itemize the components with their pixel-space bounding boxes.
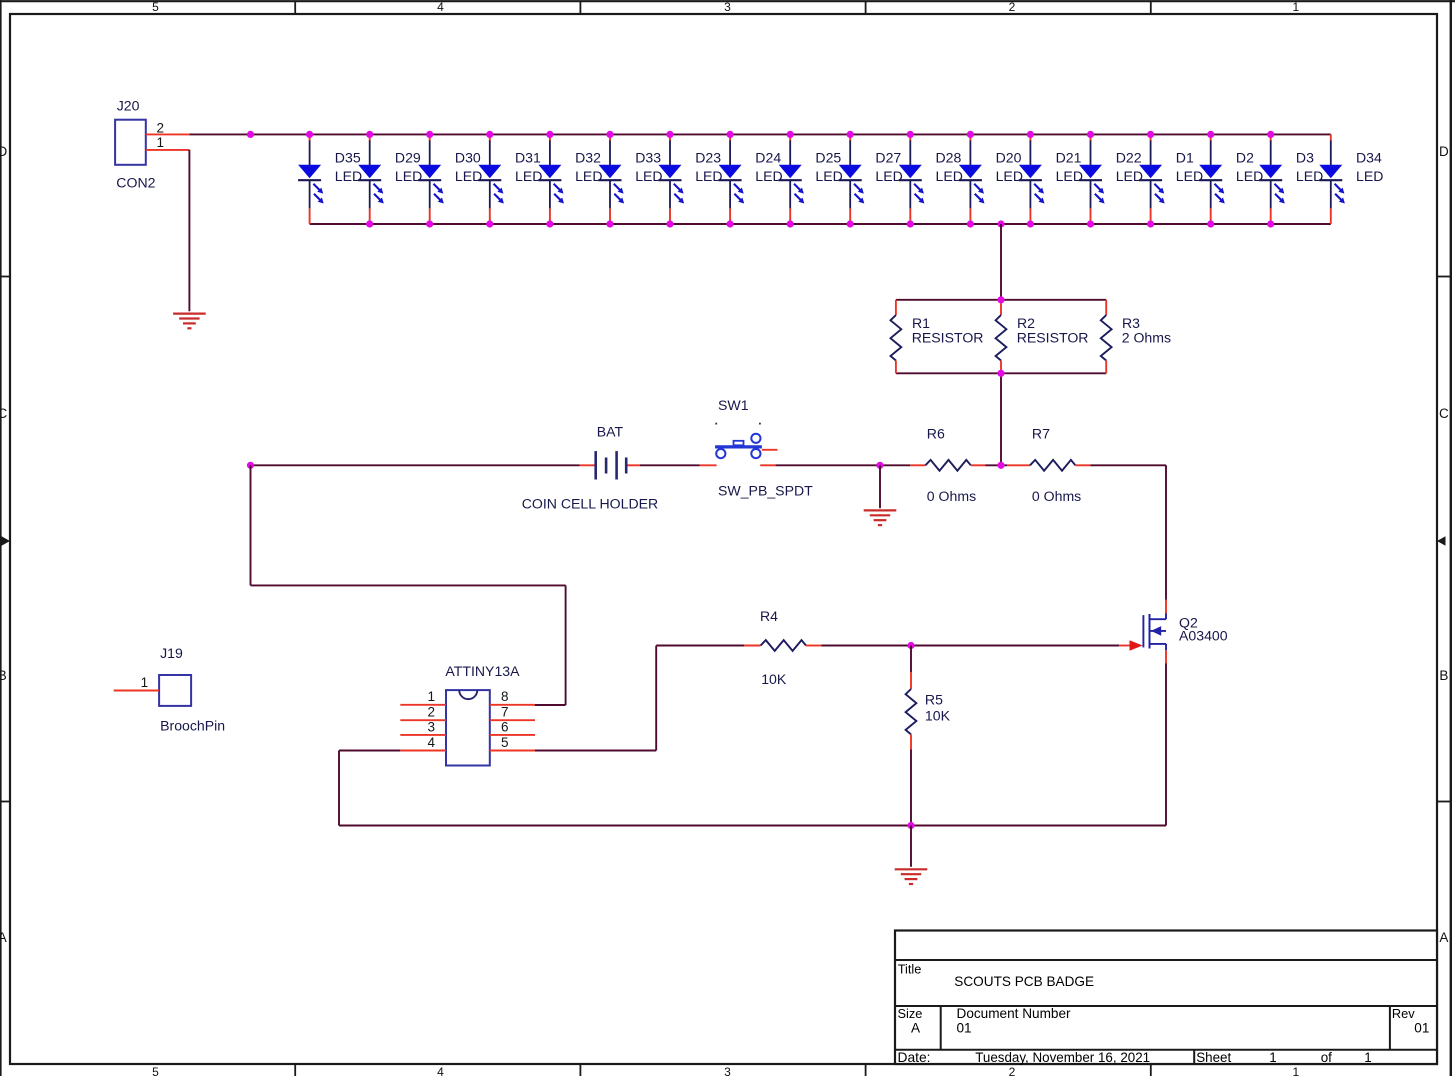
svg-text:D23: D23 [695,150,721,166]
svg-text:2: 2 [1009,1065,1016,1076]
svg-text:10K: 10K [761,671,787,687]
svg-text:RESISTOR: RESISTOR [1017,330,1089,346]
svg-text:2: 2 [427,705,435,720]
svg-text:Date:: Date: [898,1050,931,1065]
svg-text:3: 3 [427,719,435,734]
svg-text:Document Number: Document Number [957,1006,1072,1021]
svg-text:D21: D21 [1056,150,1082,166]
svg-text:3: 3 [724,1065,731,1076]
svg-text:R6: R6 [927,426,945,442]
svg-text:Tuesday, November 16, 2021: Tuesday, November 16, 2021 [975,1050,1150,1065]
svg-text:LED: LED [635,168,662,184]
svg-text:D31: D31 [515,150,541,166]
svg-text:LED: LED [755,168,782,184]
svg-text:01: 01 [957,1020,972,1035]
svg-text:3: 3 [724,0,731,14]
svg-text:Title: Title [898,962,922,977]
svg-text:C: C [0,406,7,421]
svg-text:1: 1 [1293,1065,1300,1076]
svg-text:2: 2 [1009,0,1016,14]
svg-text:8: 8 [501,689,509,704]
svg-text:RESISTOR: RESISTOR [912,330,984,346]
svg-text:J19: J19 [160,645,183,661]
svg-text:SW_PB_SPDT: SW_PB_SPDT [718,483,813,499]
svg-text:LED: LED [1056,168,1083,184]
svg-text:1: 1 [156,135,164,150]
svg-text:LED: LED [1356,168,1383,184]
svg-text:BroochPin: BroochPin [160,717,225,733]
svg-text:LED: LED [695,168,722,184]
svg-text:B: B [1439,668,1448,683]
svg-text:LED: LED [515,168,542,184]
svg-text:R3: R3 [1122,315,1140,331]
svg-text:D33: D33 [635,150,661,166]
svg-text:LED: LED [575,168,602,184]
svg-text:D28: D28 [936,150,962,166]
svg-text:ATTINY13A: ATTINY13A [445,663,520,679]
svg-text:BAT: BAT [597,423,624,439]
svg-text:SW1: SW1 [718,397,749,413]
svg-text:of: of [1321,1050,1332,1065]
svg-text:A: A [0,930,7,945]
svg-text:LED: LED [1116,168,1143,184]
svg-text:R4: R4 [760,608,778,624]
svg-text:1: 1 [1293,0,1300,14]
svg-text:0 Ohms: 0 Ohms [1032,488,1081,504]
svg-text:01: 01 [1414,1020,1429,1035]
svg-text:0 Ohms: 0 Ohms [927,488,976,504]
svg-text:5: 5 [501,735,509,750]
svg-text:LED: LED [1296,168,1323,184]
svg-text:LED: LED [1236,168,1263,184]
svg-text:2: 2 [156,120,164,135]
svg-text:CON2: CON2 [116,175,155,191]
svg-text:4: 4 [437,1065,444,1076]
svg-text:R5: R5 [925,692,943,708]
svg-text:D29: D29 [395,150,421,166]
svg-text:C: C [1439,406,1449,421]
svg-text:D34: D34 [1356,150,1382,166]
svg-text:A: A [911,1021,921,1036]
svg-text:D30: D30 [455,150,481,166]
svg-text:LED: LED [335,168,362,184]
svg-text:10K: 10K [925,707,951,723]
svg-text:R7: R7 [1032,426,1050,442]
svg-text:1: 1 [1269,1050,1276,1065]
svg-text:1: 1 [141,675,149,690]
svg-text:1: 1 [427,689,435,704]
svg-text:Size: Size [898,1006,923,1021]
svg-text:Sheet: Sheet [1196,1050,1231,1065]
svg-text:4: 4 [437,0,444,14]
svg-text:LED: LED [875,168,902,184]
svg-text:R2: R2 [1017,315,1035,331]
svg-text:LED: LED [815,168,842,184]
svg-text:LED: LED [395,168,422,184]
svg-text:D1: D1 [1176,150,1194,166]
svg-text:D2: D2 [1236,150,1254,166]
svg-text:D3: D3 [1296,150,1314,166]
svg-text:1: 1 [1364,1050,1371,1065]
svg-text:LED: LED [1176,168,1203,184]
svg-text:D35: D35 [335,150,361,166]
svg-text:7: 7 [501,705,509,720]
svg-text:Rev: Rev [1392,1006,1415,1021]
svg-text:LED: LED [455,168,482,184]
svg-text:D32: D32 [575,150,601,166]
svg-text:5: 5 [152,0,159,14]
svg-text:A: A [1439,930,1448,945]
svg-text:D: D [1439,144,1449,159]
svg-text:COIN CELL HOLDER: COIN CELL HOLDER [522,495,659,511]
svg-text:D25: D25 [815,150,841,166]
svg-text:4: 4 [427,735,435,750]
svg-text:6: 6 [501,719,509,734]
svg-text:D27: D27 [875,150,901,166]
svg-text:R1: R1 [912,315,930,331]
svg-text:LED: LED [936,168,963,184]
svg-text:2 Ohms: 2 Ohms [1122,330,1171,346]
svg-text:D20: D20 [996,150,1022,166]
svg-text:LED: LED [996,168,1023,184]
svg-text:J20: J20 [117,97,140,113]
svg-text:SCOUTS PCB BADGE: SCOUTS PCB BADGE [954,974,1094,989]
svg-text:5: 5 [152,1065,159,1076]
svg-text:A03400: A03400 [1179,628,1228,644]
svg-text:B: B [0,668,7,683]
svg-text:D: D [0,144,7,159]
svg-text:D24: D24 [755,150,781,166]
svg-text:D22: D22 [1116,150,1142,166]
